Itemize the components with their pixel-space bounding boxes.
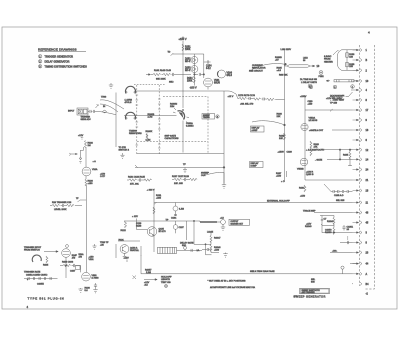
svg-text:2-T668: 2-T668 <box>92 278 100 280</box>
label DL time <box>300 79 318 84</box>
label R160B <box>148 114 155 119</box>
circled ref 335 <box>333 85 337 89</box>
svg-text:Q153 B: Q153 B <box>306 174 314 176</box>
tube envelope B162 top right <box>337 50 355 71</box>
svg-text:R103: R103 <box>88 181 94 183</box>
svg-text:R160K: R160K <box>146 131 153 133</box>
svg-text:C1051: C1051 <box>347 227 354 229</box>
svg-text:*: * <box>27 278 28 282</box>
cap bottom right <box>94 283 97 288</box>
ground near switch <box>109 83 113 88</box>
svg-text:R151: R151 <box>185 47 191 49</box>
wire +150V rail <box>182 41 184 54</box>
svg-text:+150V: +150V <box>278 152 285 154</box>
ground Y right <box>93 244 97 249</box>
label R108 <box>85 288 91 293</box>
label trigger rate <box>24 270 41 273</box>
svg-text:R1049: R1049 <box>327 221 334 223</box>
label +12v mid <box>132 216 147 230</box>
connector dashed line right <box>364 45 375 289</box>
svg-text:TRIGGER INPUT: TRIGGER INPUT <box>24 247 42 249</box>
wire v161 down <box>207 87 209 90</box>
svg-text:R164: R164 <box>299 188 305 190</box>
svg-text:V101: V101 <box>89 259 95 261</box>
wire y241 <box>118 240 140 242</box>
transistor Q123 <box>119 240 140 258</box>
svg-text:LEVEL 100K: LEVEL 100K <box>54 209 67 211</box>
switch wiper arc upper <box>126 86 136 93</box>
label current reg <box>249 65 266 72</box>
svg-text:V24A: V24A <box>92 168 98 171</box>
svg-text:+100: +100 <box>214 250 220 252</box>
svg-text:R102: R102 <box>88 143 94 145</box>
svg-text:+12V: +12V <box>144 282 150 284</box>
tube V24A <box>82 167 98 176</box>
svg-text:TRIGGER RATE: TRIGGER RATE <box>24 270 41 273</box>
junction dot x284 <box>284 124 286 126</box>
svg-text:R169: R169 <box>279 136 285 138</box>
svg-text:C134: C134 <box>171 217 177 219</box>
dly pickoff text cluster <box>326 96 345 105</box>
switch wiper arc right <box>173 108 189 123</box>
terminal circled 10b <box>308 84 312 88</box>
svg-text:V152B: V152B <box>297 169 304 171</box>
pin 2 <box>353 69 368 73</box>
svg-text:ET-178: ET-178 <box>159 231 167 233</box>
rail x305 <box>304 97 306 181</box>
svg-text:B SWP: B SWP <box>251 166 258 168</box>
label +150V right <box>300 96 307 98</box>
label T166 <box>275 49 291 61</box>
pin 6 <box>353 138 368 142</box>
wire y283 B4 <box>352 283 353 285</box>
trigger input label bottom <box>24 247 42 252</box>
label c-tp <box>100 174 106 179</box>
svg-text:C169: C169 <box>287 152 293 154</box>
svg-text:68K 100K: 68K 100K <box>156 79 166 81</box>
svg-text:R127 C127 R129: R127 C127 R129 <box>172 176 190 178</box>
svg-text:+12 V: +12 V <box>228 96 234 98</box>
svg-text:R121: R121 <box>119 240 125 242</box>
trigger level chain <box>50 202 82 211</box>
wire trig in curve <box>100 100 124 112</box>
pin 8b <box>353 241 368 245</box>
resistor R164 <box>299 185 306 198</box>
wire y181 to pin <box>305 179 353 181</box>
svg-text:1/2 6DJ8: 1/2 6DJ8 <box>309 120 319 122</box>
svg-text:R163: R163 <box>314 144 320 146</box>
resistor chain x211 <box>210 233 221 253</box>
svg-text:C160A: C160A <box>186 122 193 125</box>
bridge labels <box>305 219 334 235</box>
pin 24 <box>353 168 369 172</box>
svg-text:-100-: -100- <box>332 251 337 253</box>
svg-text:2.2M: 2.2M <box>146 272 151 274</box>
diode D153 <box>185 66 198 73</box>
svg-text:10K: 10K <box>279 138 283 140</box>
label trig tp <box>100 242 109 247</box>
svg-text:SWITCH 2: SWITCH 2 <box>119 150 130 152</box>
svg-text:TIMING: TIMING <box>203 117 210 119</box>
svg-text:SEE CIRCUIT: SEE CIRCUIT <box>249 70 264 72</box>
svg-text:A SWP: A SWP <box>252 129 259 132</box>
svg-text:SEC: SEC <box>169 82 174 84</box>
link x350 w resistor <box>343 149 352 166</box>
wire vertical x116 trig <box>115 93 117 148</box>
wire y202 external hold <box>154 200 353 203</box>
link x340 <box>339 149 341 160</box>
reference drawings legend heading <box>38 48 86 52</box>
svg-text:L166 115V: L166 115V <box>281 49 292 51</box>
svg-text:C165 A-D: C165 A-D <box>334 194 344 197</box>
transistor Q135 <box>147 227 166 237</box>
svg-text:50Ω: 50Ω <box>182 245 186 247</box>
component C1051 <box>342 225 353 231</box>
svg-text:C128: C128 <box>136 223 142 225</box>
label C160AB <box>170 103 194 127</box>
svg-text:+150: +150 <box>300 196 306 198</box>
wire to tube V24 <box>85 147 87 167</box>
pin 1 <box>353 48 368 52</box>
pin B4 <box>360 282 369 286</box>
svg-text:27K .001: 27K .001 <box>130 184 140 186</box>
arrow holdoff <box>144 279 157 287</box>
svg-text:R1057: R1057 <box>145 270 152 272</box>
legend item 3 circled <box>39 65 88 69</box>
switch arc bottom left <box>32 255 41 262</box>
display B ref box <box>250 162 264 168</box>
svg-text:R122: R122 <box>121 230 127 232</box>
label R168 <box>277 114 283 119</box>
label +150 rail284 <box>278 152 293 154</box>
svg-text:TRIG TP: TRIG TP <box>100 242 109 244</box>
resistor R154 <box>187 76 195 83</box>
ground V101 <box>79 288 83 292</box>
pin 4 <box>353 88 368 92</box>
svg-text:+ C: + C <box>281 181 285 183</box>
display A ref box <box>251 126 265 132</box>
switch wafer contact ticks column B <box>136 95 139 145</box>
svg-text:CURRENT: CURRENT <box>252 65 263 67</box>
svg-text:+ A: + A <box>93 160 97 163</box>
ground bottom right <box>93 288 97 293</box>
svg-text:+150V: +150V <box>300 96 307 98</box>
ground mid left <box>120 153 124 158</box>
svg-text:R168: R168 <box>277 114 283 116</box>
sweep out curve <box>201 172 224 183</box>
svg-text:OUT: OUT <box>201 175 206 177</box>
resistor R151 <box>182 44 191 51</box>
pin B <box>353 58 368 62</box>
svg-text:P152: P152 <box>319 76 325 78</box>
svg-text:V161: V161 <box>214 80 220 82</box>
node -100V <box>190 86 197 89</box>
curve reg wire <box>252 64 285 70</box>
node +12v bottom <box>124 258 130 263</box>
wire rail x183 to switch <box>182 121 184 153</box>
delay line coil wire <box>287 58 320 69</box>
svg-text:6AL5: 6AL5 <box>227 74 233 77</box>
svg-text:R128: R128 <box>136 226 142 228</box>
ground yc <box>183 168 187 173</box>
wire y110 to pin <box>305 109 353 112</box>
svg-text:LENGTH: LENGTH <box>161 279 170 281</box>
rail x66 bottom <box>65 257 67 278</box>
svg-text:+225: +225 <box>156 198 162 200</box>
timing resistor column <box>146 131 153 142</box>
svg-text:+15V: +15V <box>306 224 312 226</box>
svg-text:1-12RB: 1-12RB <box>125 100 133 102</box>
svg-text:C-TP: C-TP <box>100 176 106 178</box>
svg-text:6AU6: 6AU6 <box>214 82 220 85</box>
svg-text:HEATER: HEATER <box>324 60 333 63</box>
svg-text:+150: +150 <box>276 176 282 178</box>
wires tube to pins 1,B,2 <box>353 50 359 71</box>
svg-text:SEL 505: SEL 505 <box>336 200 345 202</box>
legend item 2 circled <box>39 60 70 64</box>
svg-text:Δ!! IMPORTANT LINE ΔΔ VOLT: Δ!! IMPORTANT LINE ΔΔ VOLTAGE MAX DIA <box>210 286 256 289</box>
label delay pickoff chain top <box>154 70 174 84</box>
svg-text:+150: +150 <box>89 257 95 259</box>
svg-text:EXTERNAL HOLDOFF: EXTERNAL HOLDOFF <box>267 200 290 203</box>
label R131 <box>147 190 162 205</box>
svg-text:* NOT USED AT 50 + 1KV POS: * NOT USED AT 50 + 1KV POSITIONS <box>208 280 247 283</box>
resistor R102 <box>84 141 93 148</box>
svg-text:.001 SEL 270: .001 SEL 270 <box>240 103 254 105</box>
svg-text:100K: 100K <box>187 81 193 83</box>
component stub left of rail x86 <box>76 198 86 202</box>
pin 23 <box>353 251 369 255</box>
svg-text:RESISTORS: RESISTORS <box>129 133 142 135</box>
coax thick <box>200 221 217 223</box>
wire y252 <box>330 251 353 253</box>
label R1057 <box>145 270 152 275</box>
svg-text:MARKER CKT: MARKER CKT <box>231 222 244 225</box>
svg-text:SWEEP GENERATOR: SWEEP GENERATOR <box>294 295 326 299</box>
resistor on rail284 <box>279 133 286 140</box>
wire y212 <box>303 210 353 213</box>
pin 3 <box>353 231 368 235</box>
svg-text:R1048: R1048 <box>214 247 221 249</box>
marker terminal circle <box>217 218 225 231</box>
svg-text:D152: D152 <box>185 59 191 61</box>
svg-text:+150 V: +150 V <box>179 38 187 41</box>
pin 44 <box>350 262 369 266</box>
pin 18 <box>353 189 369 193</box>
svg-text:4.7M: 4.7M <box>148 116 153 118</box>
pin 10 <box>353 79 369 83</box>
svg-text:Q135: Q135 <box>159 229 165 231</box>
resistor on x154 <box>153 207 155 214</box>
legend item 1 circled <box>39 55 74 59</box>
wire y273 long A <box>141 255 353 274</box>
label delay gate <box>180 242 194 248</box>
pin 17 <box>353 108 369 112</box>
label SW160 <box>125 100 133 105</box>
svg-text:+150: +150 <box>88 183 94 185</box>
pin 21 <box>353 178 369 182</box>
svg-text:R1050: R1050 <box>325 232 332 234</box>
diode D152 <box>185 57 198 64</box>
svg-text:TYPE 561 PLUG-IN: TYPE 561 PLUG-IN <box>28 296 65 300</box>
svg-text:REGULATOR: REGULATOR <box>252 67 266 70</box>
svg-text:TD: TD <box>168 52 171 54</box>
pin 8 <box>353 98 368 102</box>
capacitor C154 <box>204 60 212 70</box>
svg-text:TP 159: TP 159 <box>330 103 338 105</box>
svg-text:V164: V164 <box>227 73 233 75</box>
svg-text:+ 300 V: + 300 V <box>147 190 155 192</box>
svg-text:100K: 100K <box>185 49 191 51</box>
bus y167 <box>135 165 224 168</box>
output marker ref box <box>229 219 250 225</box>
sweep timing ref box <box>202 114 219 120</box>
svg-text:V661: V661 <box>92 275 98 277</box>
wire y131 trig out <box>309 129 353 132</box>
resistor left y221 <box>121 221 127 232</box>
resistors R163 pair <box>310 141 320 156</box>
svg-text:V152A: V152A <box>309 117 316 120</box>
svg-text:- GATE: - GATE <box>315 158 323 161</box>
svg-text:-100 V: -100 V <box>190 86 197 89</box>
label holdoff test <box>161 277 172 288</box>
chain upper right1 <box>172 176 197 185</box>
svg-text:22M: 22M <box>170 106 174 108</box>
node +112 left <box>78 135 84 140</box>
wire junction y54 <box>171 53 204 56</box>
delay line block 2 <box>158 246 203 253</box>
svg-text:+12V SEL R159: +12V SEL R159 <box>326 98 342 100</box>
svg-text:R141 R142 C143: R141 R142 C143 <box>154 70 172 72</box>
terminal circle on wire A <box>341 266 344 274</box>
svg-text:1.2M: 1.2M <box>146 140 151 142</box>
svg-text:R108: R108 <box>85 288 91 290</box>
pin 45 <box>353 221 369 225</box>
svg-text:TIMING: TIMING <box>129 131 137 133</box>
timing switch dashed box <box>137 85 208 155</box>
circled ref 352 <box>351 85 355 89</box>
pin 9 <box>353 118 368 122</box>
svg-text:R106 C106: R106 C106 <box>62 262 74 264</box>
svg-text:R165: R165 <box>343 154 349 156</box>
svg-text:1M: 1M <box>88 145 91 147</box>
label Q153 partial <box>306 172 314 177</box>
svg-text:AND TRIGGER: AND TRIGGER <box>302 291 316 294</box>
svg-text:C154: C154 <box>206 66 212 68</box>
wire y151 <box>321 149 353 151</box>
ground x225 <box>223 253 227 258</box>
svg-text:SENS ADJ: SENS ADJ <box>81 118 91 121</box>
junction dot x224 <box>223 167 225 169</box>
pin 46 <box>353 211 369 215</box>
svg-text:DLY PICKOFF: DLY PICKOFF <box>330 96 345 98</box>
curve to rail x284 <box>252 121 285 125</box>
resistor R166 <box>277 63 289 76</box>
pin 16 <box>353 128 369 132</box>
svg-text:DELAY GENERATOR: DELAY GENERATOR <box>45 60 70 63</box>
svg-text:6.3VAC: 6.3VAC <box>324 55 332 58</box>
svg-text:C105E: C105E <box>37 284 44 286</box>
bridge network <box>320 216 353 235</box>
resistor R103 <box>85 176 94 186</box>
label to pin note <box>119 147 130 152</box>
tube V152B <box>297 158 308 170</box>
svg-text:R105: R105 <box>43 265 49 267</box>
wire switch bottom <box>137 153 224 155</box>
svg-text:CAPACITORS: CAPACITORS <box>165 137 180 140</box>
junction x <box>133 276 137 280</box>
pin 14 <box>353 158 369 162</box>
wire diode string <box>193 54 195 86</box>
tube V164 <box>217 70 232 78</box>
svg-text:+ 2.5 SAWTOOTH: + 2.5 SAWTOOTH <box>306 149 324 152</box>
delay caps row <box>331 190 353 202</box>
pin 12 <box>353 148 369 152</box>
label 6.3VAC heater <box>324 50 339 63</box>
switch wiper arc lower <box>126 112 136 119</box>
svg-text:TRACE SEP: TRACE SEP <box>303 210 316 213</box>
svg-text:3-12: 3-12 <box>206 68 211 70</box>
svg-text:FROM SWITCH: FROM SWITCH <box>24 250 40 252</box>
wire x116 <box>115 244 117 258</box>
ground below x224 <box>222 184 226 189</box>
delay line block <box>326 80 359 82</box>
terminal P152 circled <box>319 71 325 78</box>
svg-text:L1045: L1045 <box>207 232 214 234</box>
label SEL 503 <box>311 279 316 284</box>
label swp gate capacitors <box>165 135 180 141</box>
svg-text:R154: R154 <box>187 78 193 80</box>
wire y221 <box>124 220 200 222</box>
component DL167 <box>330 90 353 102</box>
circled ref 311 <box>309 85 313 89</box>
node arrow left <box>69 147 84 163</box>
svg-text:0.1SEC: 0.1SEC <box>186 125 194 127</box>
tube V161 <box>204 78 221 87</box>
connector dashed line left <box>359 45 361 286</box>
pin A <box>353 272 368 276</box>
svg-text:SEE A TRIG DIAG PAGE: SEE A TRIG DIAG PAGE <box>250 270 275 273</box>
label R167b <box>276 171 287 183</box>
rail x80 bottom <box>80 266 82 273</box>
svg-text:INPUT: INPUT <box>68 111 75 113</box>
svg-text:C173 R173 C174: C173 R173 C174 <box>238 95 256 97</box>
svg-text:R131: R131 <box>156 195 162 197</box>
svg-text:1.5M: 1.5M <box>179 209 184 211</box>
wire stub x194 below y221 <box>193 220 211 255</box>
svg-text:C107: C107 <box>70 271 76 273</box>
wire y242 with cap <box>340 236 353 244</box>
resistor R105 <box>43 256 49 267</box>
wire stub x186 below y221 <box>186 221 188 240</box>
wire y221b <box>199 221 201 222</box>
cap circle C134 <box>171 203 184 220</box>
slant wire delay caps <box>324 184 331 192</box>
svg-text:22K: 22K <box>277 116 281 118</box>
pin 11 <box>353 201 369 205</box>
capacitor C1044 <box>197 248 212 252</box>
svg-text:TIMING DISTRIBUTION SWITCHES: TIMING DISTRIBUTION SWITCHES <box>45 65 88 68</box>
svg-text:TRIGGER GENERATOR: TRIGGER GENERATOR <box>45 55 74 58</box>
tube V101 <box>79 253 100 281</box>
wire x141 top <box>140 246 142 256</box>
wire y115.7 <box>124 115 177 117</box>
svg-text:DL TIME 60.5 NS: DL TIME 60.5 NS <box>300 79 318 81</box>
svg-text:R124 C124 R125: R124 C124 R125 <box>128 177 146 179</box>
svg-text:TEST JIG: TEST JIG <box>161 282 171 284</box>
cap circle C137 <box>173 221 184 233</box>
chain below bus <box>228 94 285 105</box>
